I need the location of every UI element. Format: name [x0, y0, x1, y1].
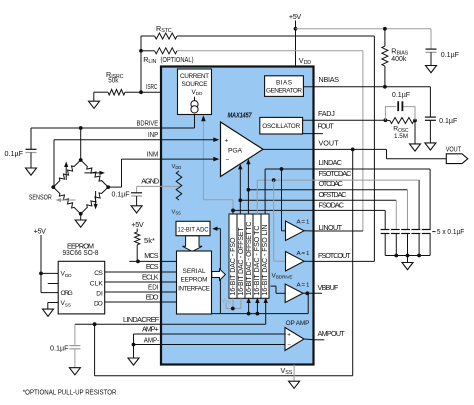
wire LINOUT: [304, 230, 314, 232]
wire FSOTCDAC to cap4: [314, 179, 419, 181]
eeprom U2 93C66 box: [58, 261, 104, 314]
svg-text:−: −: [226, 157, 230, 164]
sensor arrow top-right arm: [84, 172, 101, 174]
wire OFSTDAC to PGA: [239, 168, 241, 201]
svg-text:16-BIT DAC - OFFSET TC: 16-BIT DAC - OFFSET TC: [246, 222, 253, 296]
wire VBBUF stub: [303, 292, 322, 294]
wire +5V rail to bypass cap: [296, 28, 432, 30]
sensor arrow top-left arm: [65, 165, 67, 180]
wire LINDAC row: [265, 168, 314, 170]
arrow into current source: [201, 115, 206, 121]
wire RLIN to LINOUT vertical: [362, 51, 364, 231]
node slice1 bottom junction: [231, 307, 235, 311]
wire LINDACREF to cap: [74, 324, 76, 345]
wire LINDACREF to slice5: [161, 323, 266, 325]
sensor bridge arm bottom-right: [81, 187, 109, 214]
wire MCS stub inside: [161, 260, 177, 262]
svg-text:AGND: AGND: [141, 176, 159, 185]
capacitor 0.1uF at +5V: [426, 48, 437, 50]
wire INP: [54, 139, 161, 141]
svg-text:A = 1: A = 1: [297, 251, 310, 257]
node BDRIVE junction: [79, 126, 83, 130]
node feedback slice4: [256, 312, 260, 316]
svg-text:PGA: PGA: [228, 147, 243, 154]
wire RSTC to FSOTCOUT vertical: [373, 36, 375, 261]
node bridge bottom: [79, 212, 83, 216]
wire ECS stub inside: [161, 271, 177, 273]
wire FSODAC to cap1b: [314, 209, 385, 211]
svg-text:16-BIT DAC - OFFSET: 16-BIT DAC - OFFSET: [238, 227, 245, 296]
wire LINDACREF to VOUT loop: [94, 324, 96, 376]
svg-text:FADJ: FADJ: [318, 109, 335, 118]
node VBBUF junction: [305, 291, 309, 295]
svg-text:CURRENT: CURRENT: [180, 73, 209, 80]
svg-text:A = 1: A = 1: [297, 219, 310, 225]
svg-text:OP AMP: OP AMP: [286, 320, 310, 327]
node LINDACREF junction: [93, 322, 97, 326]
node bus 3: [417, 254, 421, 258]
capacitor bank 5 x 0.1uF: [381, 229, 390, 231]
svg-text:EDO: EDO: [146, 293, 159, 302]
svg-text:LINDACREF: LINDACREF: [123, 315, 160, 324]
svg-text:+: +: [287, 332, 291, 339]
wire FSODAC row: [233, 209, 314, 211]
svg-text:400k: 400k: [391, 54, 406, 63]
wire slice1 bottom: [232, 298, 234, 308]
wire OTCDAC to cap3: [314, 189, 408, 191]
ground ROSC: [414, 121, 416, 144]
svg-text:AMPOUT: AMPOUT: [318, 329, 346, 338]
sensor arrow bottom-right arm: [95, 191, 97, 206]
wire cap bank bus: [385, 255, 430, 257]
node bridge left: [51, 185, 55, 189]
ground cap1: [430, 52, 432, 65]
svg-text:0.1µF: 0.1µF: [392, 90, 411, 99]
svg-text:DI: DI: [96, 290, 103, 297]
dac array box: [229, 214, 269, 298]
resistor RBIAS 400k: [384, 29, 386, 46]
wire LINDACREF: [75, 323, 161, 325]
wire OFSTDAC to cap2b: [314, 199, 396, 201]
svg-text:INTERFACE: INTERFACE: [178, 285, 210, 292]
node ISRC junction: [139, 90, 143, 94]
svg-text:0.1µF: 0.1µF: [112, 190, 131, 199]
svg-text:+5V: +5V: [34, 226, 47, 235]
svg-text:16-BIT DAC - FSO TC: 16-BIT DAC - FSO TC: [254, 226, 261, 296]
node RLIN junction: [139, 49, 143, 53]
svg-text:−: −: [287, 342, 291, 349]
svg-text:OSCILLATOR: OSCILLATOR: [262, 123, 300, 130]
svg-text:SERIAL: SERIAL: [183, 268, 206, 275]
svg-text:MCS: MCS: [144, 251, 158, 260]
svg-text:ISRC: ISRC: [146, 82, 158, 91]
node LINDAC junction: [280, 167, 284, 171]
svg-text:SOURCE: SOURCE: [182, 81, 208, 88]
wire AMP+ inside: [161, 333, 285, 335]
svg-text:*OPTIONAL PULL-UP RESISTOR: *OPTIONAL PULL-UP RESISTOR: [23, 389, 117, 396]
resistor RLIN: [141, 50, 155, 52]
arrow into ADC: [212, 227, 217, 231]
svg-text:+5V: +5V: [289, 12, 302, 21]
svg-text:CLK: CLK: [90, 281, 104, 288]
capacitor 0.1uF at LINDACREF: [69, 345, 80, 347]
svg-text:BDRIVE: BDRIVE: [137, 119, 159, 128]
current source box: [178, 69, 212, 115]
svg-text:LINOUT: LINOUT: [319, 223, 343, 232]
svg-text:INM: INM: [147, 150, 159, 159]
block arrow ADC to serial interface: [183, 236, 203, 252]
node VOUT junction: [351, 148, 355, 152]
wire feedback to slice3: [248, 301, 250, 314]
wire ADC input from VBBUF: [219, 229, 221, 314]
node OFSTDAC junction: [238, 198, 242, 202]
node ROSC right: [413, 119, 417, 123]
wire BDRIVE to bridge top: [80, 128, 82, 160]
ground cap2: [429, 120, 431, 143]
wire EDO stub inside: [161, 301, 177, 303]
node +5V junction: [294, 27, 298, 31]
svg-text:VOUT: VOUT: [319, 139, 340, 148]
svg-text:CS: CS: [94, 270, 103, 277]
svg-text:RSTC: RSTC: [156, 24, 172, 34]
node bus 2: [406, 254, 410, 258]
block arrow serial interface to DACs: [212, 269, 226, 280]
wire current source to BDRIVE: [194, 115, 196, 129]
svg-text:LINDAC: LINDAC: [319, 158, 343, 167]
svg-text:VDD: VDD: [222, 298, 232, 304]
node MCS junction: [136, 260, 140, 264]
wire FADJ: [303, 119, 386, 121]
wire DO to EDO: [105, 301, 161, 303]
node FADJ junction: [384, 118, 388, 122]
svg-text:EDI: EDI: [148, 283, 159, 292]
wire VDD to DAC bottoms: [225, 304, 227, 309]
wire AMP+: [134, 333, 162, 335]
svg-text:+5V: +5V: [131, 220, 144, 229]
wire PGA output to VOUT: [263, 148, 314, 150]
capacitor 0.1uF above ROSC: [397, 101, 399, 111]
capacitor 0.1uF at AGND: [131, 192, 142, 194]
resistor RISRC 50k: [94, 91, 108, 93]
resistor RSTC: [141, 35, 155, 37]
node FSOTCDAC junction: [272, 178, 276, 182]
wire DI to EDI: [105, 291, 161, 293]
wire AMP-: [134, 344, 162, 346]
wire +5V stem to VDD pin: [295, 21, 297, 67]
wire AMPOUT stub: [304, 338, 314, 341]
wire +5V to EEPROM VDD/ORG: [40, 235, 42, 293]
capacitor 0.1uF at BDRIVE: [26, 148, 37, 150]
node OTCDAC junction: [247, 188, 251, 192]
svg-text:A = 1: A = 1: [297, 283, 310, 289]
wire BDRIVE: [81, 127, 161, 129]
node EEPROM VDD junction: [39, 272, 43, 276]
serial eeprom interface box: [177, 251, 212, 314]
ground AMP inputs: [133, 345, 135, 359]
wire FSO DAC sense gray: [202, 117, 204, 200]
op-amp U1 MAX1457 body: [161, 67, 314, 365]
wire VBDRIVE stub: [271, 285, 277, 287]
wire INP inside: [161, 139, 216, 141]
svg-text:DO: DO: [94, 300, 103, 307]
wire BDRIVE to cap: [31, 127, 81, 129]
svg-text:RLIN: RLIN: [143, 55, 156, 65]
wire OFSTDAC row: [240, 199, 314, 201]
svg-text:0.1µF: 0.1µF: [5, 149, 24, 158]
svg-text:12-BIT ADC: 12-BIT ADC: [178, 227, 209, 234]
buffer A=1 FSOTCOUT: [286, 252, 305, 272]
wire OTCDAC to PGA: [247, 162, 249, 190]
node RBIAS top: [383, 27, 387, 31]
svg-text:5k*: 5k*: [144, 236, 155, 245]
wire OTCDAC row: [248, 189, 314, 191]
svg-text:VDD: VDD: [299, 56, 311, 66]
op-amp output buffer: [285, 328, 304, 351]
svg-text:0.1µF: 0.1µF: [441, 50, 460, 59]
adc box: [176, 221, 210, 235]
wire NBIAS: [303, 86, 385, 88]
wire feedback to slice4: [256, 301, 258, 314]
svg-text:FSODAC: FSODAC: [319, 200, 345, 209]
wire AGND: [137, 185, 179, 187]
svg-text:5 x 0.1µF: 5 x 0.1µF: [437, 227, 465, 236]
svg-text:NBIAS: NBIAS: [319, 75, 340, 84]
ground cap bank: [407, 256, 409, 263]
svg-text:1.5M: 1.5M: [394, 133, 408, 140]
node RBIAS bottom: [383, 85, 387, 89]
node FSODAC junction: [231, 209, 235, 213]
wire FSOTCDAC to buffer: [273, 180, 275, 261]
buffer A=1 VBBUF: [285, 284, 303, 303]
wire ROSC cap loop: [385, 107, 396, 121]
svg-text:+: +: [225, 137, 229, 144]
oscillator box: [260, 117, 303, 134]
wire EDI stub inside: [161, 291, 177, 293]
wire VBBUF feedback: [212, 313, 309, 315]
svg-text:93C66 SO-8: 93C66 SO-8: [63, 248, 99, 257]
bias generator box: [265, 76, 304, 97]
svg-text:50k: 50k: [108, 76, 118, 85]
svg-text:VDD: VDD: [172, 164, 182, 170]
svg-text:GENERATOR: GENERATOR: [266, 87, 302, 94]
wire NBIAS to cap2: [385, 86, 431, 88]
node bus 1: [394, 254, 398, 258]
resistor internal VDD-VSS: [176, 171, 182, 200]
svg-text:VOUT: VOUT: [446, 144, 462, 153]
svg-text:AMP-: AMP-: [144, 335, 160, 344]
ground bridge: [80, 214, 82, 220]
svg-text:BIAS: BIAS: [276, 79, 292, 86]
wire LINDAC to cap5: [314, 168, 430, 170]
svg-text:0.1µF: 0.1µF: [50, 344, 69, 353]
flag VOUT output: [446, 154, 468, 164]
resistor ROSC 1.5M: [390, 118, 414, 124]
label 5 x 0.1uF: [432, 231, 435, 233]
svg-text:VSS: VSS: [172, 210, 181, 216]
wire CLK to ECLK: [105, 281, 161, 283]
svg-text:16-BIT DAC - FSO: 16-BIT DAC - FSO: [230, 237, 237, 296]
svg-text:(OPTIONAL): (OPTIONAL): [161, 55, 194, 64]
svg-text:VBBUF: VBBUF: [318, 283, 340, 292]
wire CS to ECS: [105, 271, 161, 273]
wire AMP- inside: [161, 344, 285, 346]
svg-text:SENSOR: SENSOR: [29, 193, 52, 202]
wire RSTC left vertical: [140, 36, 142, 92]
svg-text:OFSTDAC: OFSTDAC: [319, 190, 347, 199]
wire FOUT stub: [303, 133, 323, 135]
op-amp PGA: [221, 122, 264, 177]
svg-text:FOUT: FOUT: [318, 122, 335, 131]
capacitor 0.1uF at NBIAS: [425, 116, 436, 118]
svg-text:ORG: ORG: [61, 290, 73, 297]
sensor arrow bottom-left arm: [59, 199, 76, 201]
svg-text:ECLK: ECLK: [142, 273, 159, 282]
svg-text:EEPROM: EEPROM: [181, 277, 208, 284]
resistor 5k pull-up: [136, 229, 138, 232]
buffer A=1 LINOUT: [286, 221, 305, 241]
ground AGND cap: [136, 196, 138, 206]
svg-text:FSOTCOUT: FSOTCOUT: [318, 251, 351, 260]
wire ECLK stub inside: [161, 281, 177, 283]
svg-text:ECS: ECS: [146, 262, 159, 271]
svg-text:MAX1457: MAX1457: [228, 110, 253, 119]
wire MCS: [129, 260, 161, 262]
svg-text:0.1µF: 0.1µF: [439, 116, 458, 125]
svg-text:AMP+: AMP+: [142, 325, 159, 334]
node bridge top: [79, 158, 83, 162]
wire INM: [122, 158, 162, 160]
ground ISRC: [93, 92, 95, 101]
wire LINDAC to buffer: [281, 169, 283, 231]
svg-text:16-BIT DAC - FSO LIN: 16-BIT DAC - FSO LIN: [262, 225, 269, 296]
ground VSS: [289, 381, 300, 388]
wire VSS stem: [293, 365, 295, 382]
ground LINDACREF cap: [74, 349, 76, 368]
svg-text:VSS: VSS: [281, 366, 293, 376]
svg-text:INP: INP: [148, 130, 158, 139]
sensor bridge arm top-right: [81, 160, 109, 187]
sensor bridge arm top-left: [53, 160, 80, 187]
wire VOUT: [314, 148, 387, 150]
current source symbol: [194, 97, 196, 101]
node feedback slice3: [247, 312, 251, 316]
wire FSOTCDAC row: [257, 179, 314, 181]
wire INM inside: [161, 158, 216, 160]
wire FSOTCOUT: [304, 260, 314, 262]
node AMP junction: [132, 343, 136, 347]
wire EEPROM NC stub: [48, 283, 58, 285]
svg-text:FSOTCDAC: FSOTCDAC: [319, 169, 352, 178]
node bridge right: [106, 185, 110, 189]
ground EEPROM: [43, 309, 54, 316]
ground BDRIVE cap: [30, 153, 32, 169]
wire EEPROM VSS to ground: [48, 302, 58, 304]
sensor bridge arm bottom-left: [53, 187, 80, 214]
